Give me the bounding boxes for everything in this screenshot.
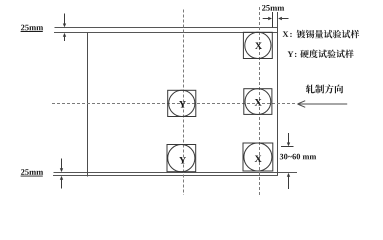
legend colon 1 [290,33,291,37]
sheet left edge [87,33,89,177]
sheet right edge [277,12,279,176]
label: rolling direction [306,85,343,94]
rolling direction arrowhead lower stroke [298,104,306,107]
dimension label 25mm top-right [262,5,284,11]
dimension label 30~60 mm [280,154,316,160]
legend symbol Y [288,51,294,57]
legend text: hardness test specimen [300,50,354,59]
legend text: tin coating weight test specimen [297,30,360,39]
specimen Y bottom-left circle [168,145,195,172]
specimen Y middle-left letter Y [179,101,186,108]
specimen X middle-right letter X [255,99,262,106]
rolling direction arrow shaft [298,103,347,105]
specimen X bottom-right letter X [255,155,262,162]
specimen X top-right letter X [255,42,262,49]
specimen Y bottom-left square [167,145,196,172]
specimen Y middle-left square [168,90,196,116]
sheet top edge line [55,27,278,29]
legend colon 2 [295,53,296,57]
bottom-left dim lower arrow pointing up at sheet edge [61,179,63,188]
underline of bottom-left 25mm [21,175,43,177]
top trim line 25mm below top edge [54,32,278,34]
vertical centerline right specimen column [259,7,261,195]
sheet bottom edge line [53,175,278,177]
specimen Y middle-left circle [169,90,195,116]
specimen X bottom-right square [243,143,273,171]
top-right dim left arrow pointing right at tick [263,18,269,20]
30-60mm dim upper arrow pointing down at tick [288,133,290,143]
dimension label 25mm top-left [21,25,43,31]
vertical centerline left specimen column [183,10,185,196]
specimen X middle-right square [244,89,272,115]
30-60mm dim lower arrow pointing up at extended trim line [288,176,290,189]
rolling direction arrowhead upper stroke [298,101,306,104]
specimen X top-right square [243,32,272,58]
specimen X top-right circle [245,32,271,58]
top-right dim tick line [272,12,274,28]
legend symbol X [283,31,289,37]
top-left dim lower arrow pointing up at trim line [64,36,66,41]
horizontal centerline middle specimen row [52,103,295,105]
bottom trim line (extends right as extension line for 30-60mm dim) [54,172,298,174]
top-right dim right arrow pointing left at sheet edge [282,18,289,20]
30-60mm dim top tick line [281,146,294,148]
specimen X bottom-right circle [244,143,272,171]
specimen X middle-right circle [245,89,271,115]
top-left dim upper arrow pointing down at sheet edge [64,14,66,25]
dimension label 25mm bottom-left [21,169,43,175]
bottom-left dim upper arrow pointing down at trim line [61,159,63,169]
specimen Y bottom-left letter Y [179,157,186,164]
underline of top-left 25mm [21,31,43,33]
